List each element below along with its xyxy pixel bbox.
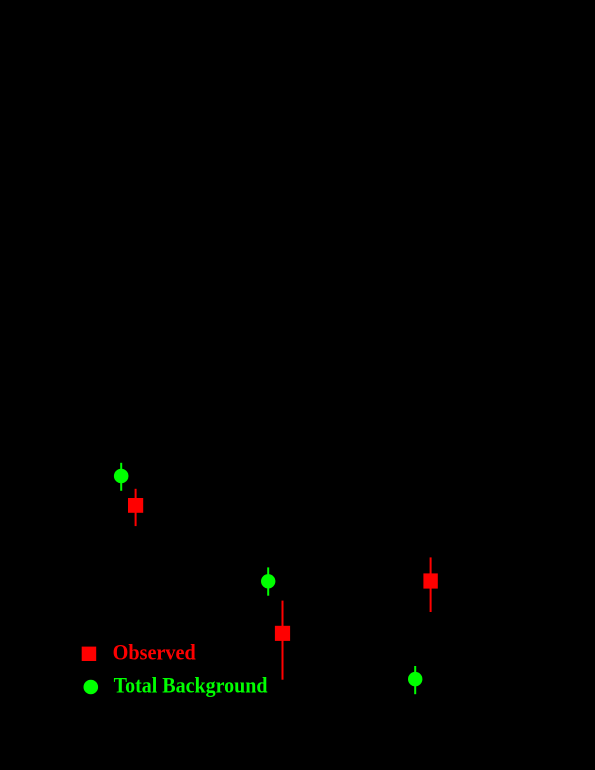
error bar of observed point 2: [282, 601, 284, 680]
observed point 2 (red square): [275, 626, 290, 641]
total background point 3 (green circle): [408, 672, 422, 686]
legend marker: observed (red square): [82, 647, 97, 661]
error bar of observed point 3: [430, 557, 432, 612]
error bar of total background point 1: [120, 463, 122, 491]
svg-text:Total Background: Total Background: [114, 673, 268, 698]
total background point 1 (green circle): [114, 469, 129, 484]
svg-text:Observed: Observed: [113, 640, 196, 665]
error bar of total background point 2: [267, 567, 269, 595]
error bar of total background point 3: [414, 666, 416, 694]
observed point 1 (red square): [128, 498, 143, 513]
observed point 3 (red square): [423, 573, 437, 588]
error bar of observed point 1: [135, 489, 137, 526]
legend marker: total background (green circle): [84, 680, 99, 695]
total background point 2 (green circle): [261, 574, 275, 588]
